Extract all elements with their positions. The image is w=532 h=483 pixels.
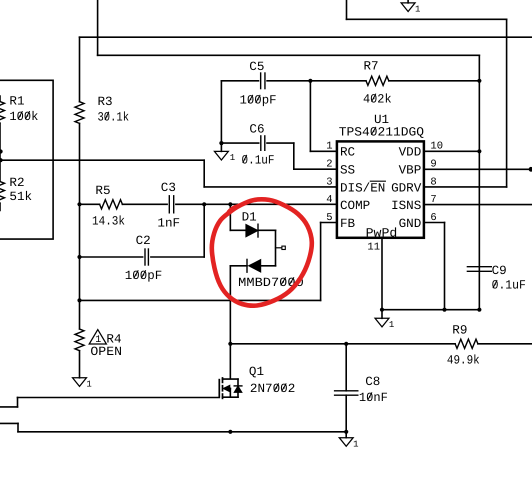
svg-text:TPS40211DGQ: TPS40211DGQ [339,126,424,140]
svg-text:100pF: 100pF [240,94,277,108]
svg-text:C6: C6 [249,123,264,137]
svg-text:2N7002: 2N7002 [250,382,295,396]
svg-text:49.9k: 49.9k [447,353,480,367]
svg-text:VBP: VBP [399,164,422,178]
svg-text:R9: R9 [452,324,467,338]
svg-text:R1: R1 [9,95,24,109]
svg-text:C2: C2 [136,234,151,248]
svg-text:6: 6 [430,212,436,224]
svg-text:7: 7 [430,194,436,206]
svg-text:5: 5 [326,212,332,224]
svg-text:DIS/EN: DIS/EN [340,181,385,195]
svg-text:FB: FB [340,217,356,231]
svg-text:PwPd: PwPd [366,226,398,240]
svg-text:14.3k: 14.3k [92,215,125,229]
svg-text:D1: D1 [242,211,257,225]
svg-text:1: 1 [415,5,420,15]
svg-text:ISNS: ISNS [391,199,421,213]
svg-text:10: 10 [430,141,443,153]
svg-text:C8: C8 [365,375,380,389]
svg-text:1: 1 [389,320,394,330]
svg-text:Q1: Q1 [249,365,264,379]
svg-text:2: 2 [326,159,332,171]
svg-text:R3: R3 [98,95,113,109]
svg-text:C3: C3 [161,181,176,195]
svg-text:402k: 402k [363,92,392,106]
svg-text:1nF: 1nF [157,217,180,231]
svg-text:30.1k: 30.1k [98,110,130,124]
svg-text:OPEN: OPEN [90,345,122,359]
svg-text:1: 1 [86,379,91,389]
svg-text:C5: C5 [249,60,264,74]
svg-text:1: 1 [353,439,358,449]
svg-text:1: 1 [326,141,332,153]
svg-text:SS: SS [340,164,355,178]
svg-text:VDD: VDD [399,146,422,160]
svg-text:R5: R5 [95,184,110,198]
svg-text:3: 3 [326,176,332,188]
svg-text:4: 4 [326,194,332,206]
svg-text:8: 8 [430,176,436,188]
svg-text:1: 1 [230,153,235,163]
svg-text:10nF: 10nF [359,391,388,405]
svg-text:RC: RC [340,146,356,160]
svg-text:R2: R2 [9,176,24,190]
svg-text:C9: C9 [492,264,507,278]
svg-text:100pF: 100pF [125,269,162,283]
svg-text:GND: GND [399,217,422,231]
svg-text:9: 9 [430,159,436,171]
svg-text:11: 11 [367,242,380,254]
svg-text:COMP: COMP [340,199,370,213]
svg-text:100k: 100k [9,110,38,124]
svg-text:51k: 51k [9,190,32,204]
svg-text:R7: R7 [364,60,379,74]
svg-text:GDRV: GDRV [391,181,422,195]
